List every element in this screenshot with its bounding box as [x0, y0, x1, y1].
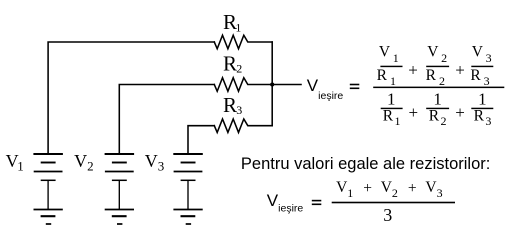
- svg-text:V2: V2: [381, 179, 398, 200]
- svg-text:1: 1: [387, 90, 396, 109]
- svg-text:3: 3: [383, 205, 392, 225]
- svg-text:1: 1: [433, 90, 442, 109]
- svg-text:Pentru valori egale ale rezist: Pentru valori egale ale rezistorilor:: [241, 155, 490, 173]
- svg-text:+: +: [455, 60, 465, 79]
- svg-text:V1: V1: [6, 151, 24, 174]
- svg-text:R1: R1: [377, 67, 396, 88]
- svg-text:+: +: [408, 60, 418, 79]
- svg-text:V1: V1: [336, 179, 353, 200]
- svg-text:Vieşire: Vieşire: [267, 191, 304, 215]
- svg-text:V2: V2: [427, 43, 447, 65]
- svg-text:V2: V2: [74, 151, 94, 174]
- svg-text:R3: R3: [474, 107, 492, 128]
- svg-text:R1: R1: [383, 107, 401, 128]
- svg-text:V3: V3: [145, 151, 165, 174]
- svg-text:1: 1: [478, 90, 487, 109]
- svg-text:R3: R3: [470, 67, 489, 88]
- svg-text:+: +: [408, 180, 417, 197]
- svg-text:+: +: [363, 180, 372, 197]
- svg-text:+: +: [409, 103, 419, 122]
- svg-text:V3: V3: [472, 43, 492, 65]
- svg-text:R3: R3: [223, 93, 242, 117]
- svg-text:R2: R2: [426, 67, 445, 88]
- svg-text:Vieşire: Vieşire: [307, 76, 344, 102]
- svg-text:R2: R2: [223, 52, 242, 76]
- svg-text:R2: R2: [429, 107, 447, 128]
- svg-text:+: +: [455, 103, 465, 122]
- svg-text:R1: R1: [223, 10, 241, 34]
- svg-text:V1: V1: [379, 43, 399, 65]
- svg-text:V3: V3: [425, 179, 442, 200]
